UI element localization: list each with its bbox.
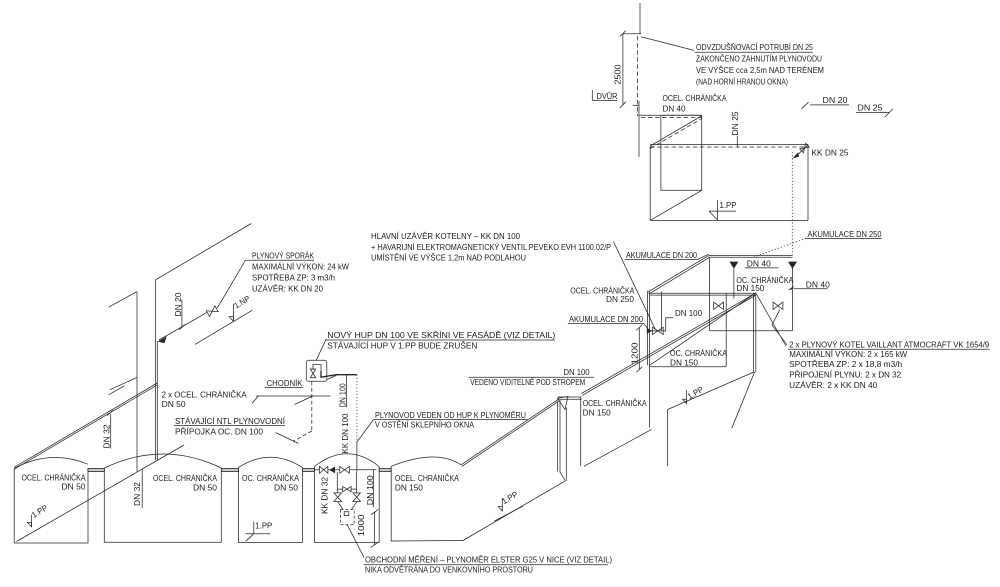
svg-text:HLAVNÍ UZÁVĚR KOTELNY – KK DN: HLAVNÍ UZÁVĚR KOTELNY – KK DN 100 bbox=[371, 231, 520, 241]
svg-text:AKUMULACE DN 200: AKUMULACE DN 200 bbox=[626, 251, 697, 260]
svg-text:DN 150: DN 150 bbox=[583, 409, 611, 418]
svg-text:DN 40: DN 40 bbox=[806, 280, 830, 289]
svg-text:OCEL. CHRÁNIČKA: OCEL. CHRÁNIČKA bbox=[570, 285, 634, 295]
svg-text:1.PP: 1.PP bbox=[255, 522, 273, 531]
svg-text:UZÁVĚR: KK DN 20: UZÁVĚR: KK DN 20 bbox=[252, 284, 323, 294]
svg-text:OC. CHRÁNIČKA: OC. CHRÁNIČKA bbox=[242, 473, 299, 483]
svg-text:OBCHODNÍ MĚŘENÍ – PLYNOMĚR ELS: OBCHODNÍ MĚŘENÍ – PLYNOMĚR ELSTER G25 V … bbox=[365, 554, 612, 564]
svg-text:PLYNOVOD VEDEN OD HUP K PLYNOM: PLYNOVOD VEDEN OD HUP K PLYNOMĚRU bbox=[375, 410, 526, 420]
svg-text:PŘIPOJENÍ PLYNU: 2 x DN 32: PŘIPOJENÍ PLYNU: 2 x DN 32 bbox=[789, 370, 901, 380]
svg-text:DN 100: DN 100 bbox=[564, 368, 590, 377]
svg-text:DN 150: DN 150 bbox=[736, 284, 764, 293]
svg-text:DN 25: DN 25 bbox=[731, 111, 740, 135]
svg-text:OC. CHRÁNIČKA: OC. CHRÁNIČKA bbox=[670, 348, 727, 358]
svg-text:KK DN 32: KK DN 32 bbox=[321, 477, 330, 514]
svg-text:STÁVAJÍCÍ NTL PLYNOVODNÍ: STÁVAJÍCÍ NTL PLYNOVODNÍ bbox=[175, 416, 286, 426]
svg-text:DN 150: DN 150 bbox=[670, 359, 698, 368]
svg-text:AKUMULACE DN 200: AKUMULACE DN 200 bbox=[569, 315, 643, 324]
svg-text:V OSTĚNÍ SKLEPNÍHO OKNA: V OSTĚNÍ SKLEPNÍHO OKNA bbox=[375, 419, 474, 429]
svg-text:DN 250: DN 250 bbox=[606, 295, 634, 304]
svg-text:VE VÝŠCE cca 2,5m NAD TERÉNEM: VE VÝŠCE cca 2,5m NAD TERÉNEM bbox=[696, 65, 824, 75]
svg-text:NOVÝ HUP DN 100 VE SKŘÍNI VE F: NOVÝ HUP DN 100 VE SKŘÍNI VE FASÁDĚ (VIZ… bbox=[327, 330, 555, 340]
svg-text:PLYNOVÝ SPORÁK: PLYNOVÝ SPORÁK bbox=[252, 251, 314, 261]
svg-text:OCEL. CHRÁNIČKA: OCEL. CHRÁNIČKA bbox=[663, 93, 727, 103]
svg-text:KK DN 25: KK DN 25 bbox=[812, 148, 849, 157]
svg-text:STÁVAJÍCÍ HUP V 1.PP BUDE ZRUŠ: STÁVAJÍCÍ HUP V 1.PP BUDE ZRUŠEN bbox=[327, 341, 477, 351]
svg-text:DN 100: DN 100 bbox=[366, 475, 375, 505]
svg-text:UZÁVĚR: 2 x KK DN 40: UZÁVĚR: 2 x KK DN 40 bbox=[789, 380, 877, 390]
svg-text:OCEL. CHRÁNIČKA: OCEL. CHRÁNIČKA bbox=[583, 398, 647, 408]
svg-text:1.PP: 1.PP bbox=[720, 201, 738, 210]
svg-text:2 x OCEL. CHRÁNIČKA: 2 x OCEL. CHRÁNIČKA bbox=[162, 390, 248, 400]
svg-text:DN 40: DN 40 bbox=[663, 105, 686, 114]
svg-text:DN 50: DN 50 bbox=[62, 483, 86, 492]
svg-text:DN 50: DN 50 bbox=[162, 400, 186, 409]
svg-text:DN 32: DN 32 bbox=[133, 482, 142, 506]
svg-text:OCEL. CHRÁNIČKA: OCEL. CHRÁNIČKA bbox=[22, 472, 86, 482]
svg-text:VEDENO VIDITELNĚ POD STROPEM: VEDENO VIDITELNĚ POD STROPEM bbox=[470, 377, 585, 387]
svg-text:NIKA ODVĚTRÁNA DO VENKOVNÍHO P: NIKA ODVĚTRÁNA DO VENKOVNÍHO PROSTORU bbox=[365, 564, 533, 574]
svg-text:DVŮR: DVŮR bbox=[597, 90, 618, 101]
svg-text:DN 100: DN 100 bbox=[675, 309, 702, 318]
svg-text:2500: 2500 bbox=[614, 64, 623, 84]
svg-text:+ HAVARIJNÍ ELEKTROMAGNETICKÝ: + HAVARIJNÍ ELEKTROMAGNETICKÝ VENTIL PEV… bbox=[371, 242, 611, 252]
svg-text:DN 20: DN 20 bbox=[174, 292, 183, 316]
svg-text:2 x PLYNOVÝ KOTEL VAILLANT ATM: 2 x PLYNOVÝ KOTEL VAILLANT ATMOCRAFT VK … bbox=[789, 339, 989, 349]
svg-text:1200: 1200 bbox=[631, 342, 640, 365]
svg-text:DN 25: DN 25 bbox=[858, 104, 883, 113]
svg-text:DN 50: DN 50 bbox=[274, 483, 298, 492]
svg-text:SPOTŘEBA ZP: 2 x 18,8 m3/h: SPOTŘEBA ZP: 2 x 18,8 m3/h bbox=[789, 359, 902, 369]
svg-text:DN 20: DN 20 bbox=[823, 96, 848, 105]
svg-text:DN 150: DN 150 bbox=[395, 483, 423, 492]
svg-text:PŘÍPOJKA OC. DN 100: PŘÍPOJKA OC. DN 100 bbox=[175, 426, 263, 436]
svg-text:MAXIMÁLNÍ VÝKON: 24 kW: MAXIMÁLNÍ VÝKON: 24 kW bbox=[252, 262, 349, 272]
svg-text:KK DN 100: KK DN 100 bbox=[341, 413, 350, 453]
svg-text:ODVZDUŠŇOVACÍ POTRUBÍ DN 25: ODVZDUŠŇOVACÍ POTRUBÍ DN 25 bbox=[696, 42, 813, 52]
svg-text:AKUMULACE DN 250: AKUMULACE DN 250 bbox=[808, 230, 882, 239]
svg-text:ZAKONČENO ZAHNUTÍM PLYNOVODU: ZAKONČENO ZAHNUTÍM PLYNOVODU bbox=[696, 54, 822, 64]
svg-text:CHODNÍK: CHODNÍK bbox=[267, 378, 304, 388]
svg-text:1000: 1000 bbox=[357, 514, 366, 537]
svg-text:OCEL. CHRÁNIČKA: OCEL. CHRÁNIČKA bbox=[153, 473, 217, 483]
svg-text:DN 50: DN 50 bbox=[193, 483, 217, 492]
svg-text:SPOTŘEBA ZP: 3 m3/h: SPOTŘEBA ZP: 3 m3/h bbox=[252, 273, 335, 283]
svg-text:DN 100: DN 100 bbox=[339, 383, 348, 407]
svg-text:(NAD HORNÍ HRANOU OKNA): (NAD HORNÍ HRANOU OKNA) bbox=[696, 77, 788, 87]
svg-text:MAXIMÁLNÍ VÝKON: 2 x 165 kW: MAXIMÁLNÍ VÝKON: 2 x 165 kW bbox=[789, 349, 907, 359]
svg-text:DN 40: DN 40 bbox=[747, 259, 771, 268]
svg-text:DN 32: DN 32 bbox=[103, 424, 112, 448]
svg-text:OCEL. CHRÁNIČKA: OCEL. CHRÁNIČKA bbox=[395, 473, 459, 483]
svg-text:UMÍSTĚNÍ VE VÝŠCE 1,2m NAD POD: UMÍSTĚNÍ VE VÝŠCE 1,2m NAD PODLAHOU bbox=[371, 253, 526, 263]
